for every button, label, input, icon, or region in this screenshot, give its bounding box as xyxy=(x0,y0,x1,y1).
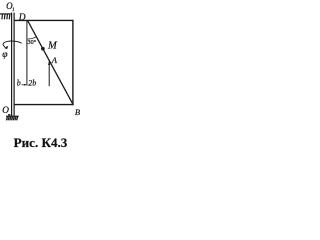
svg-text:Рис. К4.3: Рис. К4.3 xyxy=(14,135,68,150)
svg-text:D: D xyxy=(18,13,26,23)
svg-text:φ: φ xyxy=(2,50,7,60)
svg-text:M: M xyxy=(47,41,58,52)
svg-text:30°: 30° xyxy=(28,39,37,46)
svg-text:b: b xyxy=(17,79,21,88)
svg-text:2b: 2b xyxy=(28,79,36,88)
svg-text:A: A xyxy=(51,55,58,65)
svg-text:B: B xyxy=(75,107,80,117)
svg-text:O: O xyxy=(2,105,9,115)
